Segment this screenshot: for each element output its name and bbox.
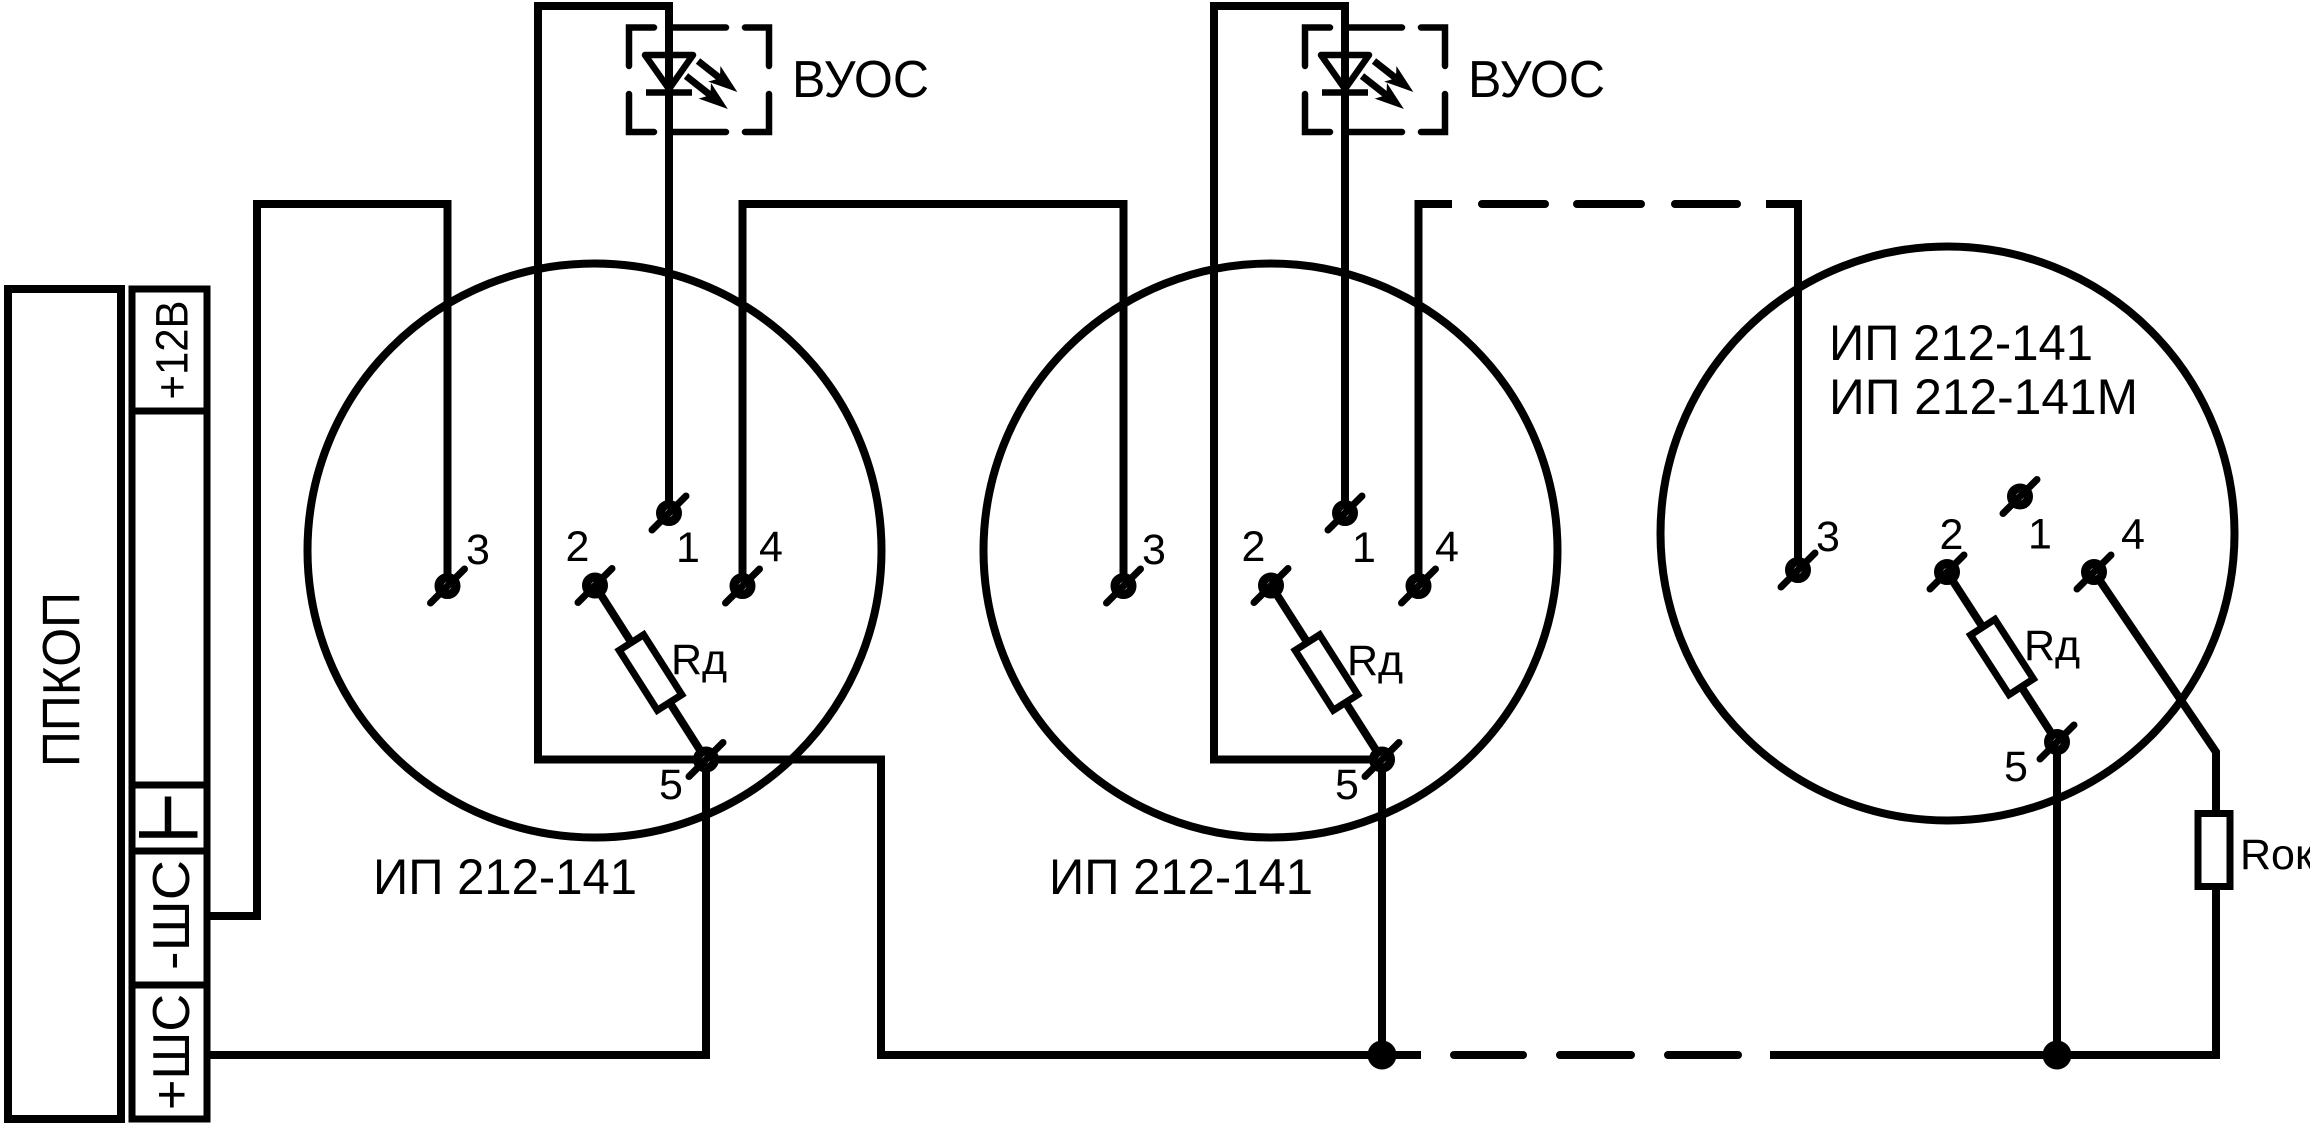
detector1 pin 3 label [466,526,490,574]
detector3 pin 2 [1930,555,1964,589]
detector1 pin 1 [652,496,686,530]
bottom bus dashed segment [1454,1051,1738,1059]
svg-text:Rд: Rд [671,636,727,684]
svg-text:5: 5 [659,761,683,809]
svg-text:4: 4 [759,523,783,571]
detector 1 label ИП 212-141 [373,849,637,905]
svg-text:5: 5 [1335,761,1359,809]
detector2 pin 3 [1107,569,1141,603]
svg-text:1: 1 [676,524,700,572]
detector 2 circle ИП 212-141 [984,264,1558,838]
LED D1 emission arrow 2 [686,76,726,108]
svg-text:5: 5 [2004,743,2028,791]
top dashed bus to detector3 [1482,200,1737,208]
LED D2 emission arrow 2 [1362,76,1402,108]
detector2 pin 2 [1254,569,1288,603]
svg-text:ВУОС: ВУОС [792,51,929,109]
junction dot detector3 pin5 / bus [2043,1041,2072,1070]
resistor Rок body [2198,814,2230,887]
detector3 resistor Rд label [2024,622,2080,670]
detector1 pin 4 [726,569,760,603]
ВУОС label 1 [792,51,929,109]
terminal -ШС label [143,860,201,970]
svg-text:Rд: Rд [1347,637,1403,685]
wire detector2 pin4 up to dashed bus [1419,204,1453,586]
terminal +12В box [132,289,207,411]
ППКОП label [33,592,92,767]
detector1 pin 5 [689,743,723,777]
svg-text:2: 2 [1940,511,1964,559]
terminal +ШС label [143,994,201,1110]
detector2 pin 4 label [1435,523,1459,571]
wire detector2 pin1 to ВУОС LED [1214,6,1345,760]
detector2 resistor Rд body [1295,635,1358,710]
detector1 resistor Rд label [671,636,727,684]
wire -ШС to detector1 pin 3 [207,204,448,916]
svg-text:4: 4 [2121,511,2145,559]
svg-text:+12В: +12В [147,301,198,400]
detector3 pin 5 label [2004,743,2028,791]
wire ВУОС2 loop to pin5 [1210,760,1382,1056]
LED D2 emission arrow 1 [1374,61,1412,91]
detector 2 label ИП 212-141 [1049,849,1313,905]
detector3 pin 5 [2040,725,2074,759]
svg-text:3: 3 [1816,513,1840,561]
detector1 pin 5 label [659,761,683,809]
detector1 pin 2 [578,569,612,603]
LED D2 cathode bar [1322,89,1368,96]
detector1 pin 3 [431,569,465,603]
resistor Rок label [2240,831,2310,879]
detector 3 label ИП 212-141 line1 [1829,315,2093,371]
wire ВУОС1 loop to pin5 [534,760,1421,1056]
svg-text:ИП 212-141: ИП 212-141 [373,849,637,905]
svg-text:2: 2 [1242,523,1266,571]
detector2 pin 2 label [1242,523,1266,571]
svg-text:ИП 212-141: ИП 212-141 [1049,849,1313,905]
detector3 resistor Rд body [1971,619,2034,694]
detector2 pin 4 [1402,569,1436,603]
detector1 pin 2 label [566,523,590,571]
detector 3 label ИП 212-141М line2 [1829,369,2138,425]
svg-text:+ШС: +ШС [143,994,201,1110]
svg-text:3: 3 [466,526,490,574]
terminal ground symbol [139,797,198,835]
detector3 pin 4 label [2121,511,2145,559]
detector2 pin 1 [1328,496,1362,530]
detector3 pin 4 [2077,555,2111,589]
LED D1 triangle [645,55,693,89]
svg-text:1: 1 [1352,524,1376,572]
wire detector3 pin3 from dashed bus [1766,204,1798,570]
detector3 pin 2 label [1940,511,1964,559]
detector2 pin 3 label [1142,526,1166,574]
detector3 pin 1 [2003,480,2037,514]
detector2 resistor Rд label [1347,637,1403,685]
wire detector1 pin4 to detector2 pin3 [743,204,1124,586]
bottom bus solid to Rок and detector3 pin4 diagonal [1770,572,2216,1055]
detector 3 circle ИП 212-141 / ИП 212-141М [1661,247,2235,821]
detector3 pin 1 label [2028,511,2052,559]
svg-text:3: 3 [1142,526,1166,574]
ВУОС box 2 (dashed) [1305,28,1445,133]
wire detector3 pin5 down to junction [2053,742,2061,1055]
svg-text:4: 4 [1435,523,1459,571]
detector2 resistor Rд wire pin2-pin5 [1271,586,1382,760]
terminal column box [132,289,207,1119]
detector2 pin 1 label [1352,524,1376,572]
LED D2 triangle [1321,55,1369,89]
detector1 resistor Rд body [619,635,682,710]
terminal ground box [132,785,207,851]
detector1 pin 4 label [759,523,783,571]
LED D1 emission arrow 1 [698,61,736,91]
detector1 resistor Rд wire pin2-pin5 [595,586,706,760]
detector1 pin 1 label [676,524,700,572]
wire +ШС to detector1 pin 5 [207,759,706,1055]
svg-text:Rд: Rд [2024,622,2080,670]
svg-text:Rок: Rок [2240,831,2310,879]
ВУОС box 1 (dashed) [629,28,769,133]
ППКОП control panel box [8,289,121,1119]
terminal +ШС box [132,985,207,1119]
svg-text:2: 2 [566,523,590,571]
detector3 resistor Rд wire pin2-pin5 [1947,572,2057,742]
detector3 pin 3 [1781,553,1815,587]
svg-text:ИП 212-141М: ИП 212-141М [1829,369,2138,425]
wire detector1 pin1 to ВУОС LED [538,6,669,760]
ВУОС label 2 [1468,51,1605,109]
svg-text:ППКОП: ППКОП [33,592,92,767]
detector3 pin 3 label [1816,513,1840,561]
svg-text:-ШС: -ШС [143,860,201,970]
LED D1 cathode bar [646,89,692,96]
svg-text:1: 1 [2028,511,2052,559]
terminal -ШС box [132,851,207,985]
junction dot detector2 pin5 / bus [1368,1041,1397,1070]
detector 1 circle ИП 212-141 [308,264,882,838]
svg-text:ВУОС: ВУОС [1468,51,1605,109]
detector2 pin 5 label [1335,761,1359,809]
detector2 pin 5 [1365,743,1399,777]
svg-text:ИП 212-141: ИП 212-141 [1829,315,2093,371]
terminal +12В label [147,301,198,400]
